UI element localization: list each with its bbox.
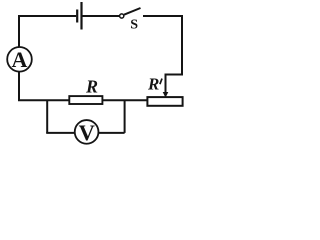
svg-text:R: R: [85, 76, 98, 96]
svg-text:V: V: [79, 120, 95, 145]
resistor R body: [69, 96, 102, 104]
wire voltmeter bottom right: [99, 132, 125, 134]
wiper arrowhead: [163, 92, 169, 98]
ammeter A: [7, 47, 32, 72]
battery: [77, 2, 81, 30]
switch S: [120, 8, 141, 33]
wire ammeter to middle wire: [18, 72, 20, 101]
wire switch to top-right corner, down right side, jog left, down to arrow: [143, 16, 182, 93]
wire resistor R to rheostat: [103, 99, 147, 101]
wire middle horizontal left (to resistor R): [18, 99, 69, 101]
rheostat R' body: [147, 97, 182, 106]
voltmeter V: [75, 120, 99, 145]
wire top-left horizontal: [19, 15, 76, 17]
wire voltmeter branch left vertical: [46, 100, 48, 133]
wire voltmeter bottom left: [46, 132, 75, 134]
svg-text:R: R: [147, 74, 159, 93]
wire voltmeter branch right vertical: [124, 100, 126, 133]
svg-text:S: S: [130, 18, 138, 33]
wire battery to switch: [83, 15, 120, 17]
wire left vertical top (corner to ammeter): [18, 15, 20, 47]
svg-text:A: A: [12, 47, 28, 72]
